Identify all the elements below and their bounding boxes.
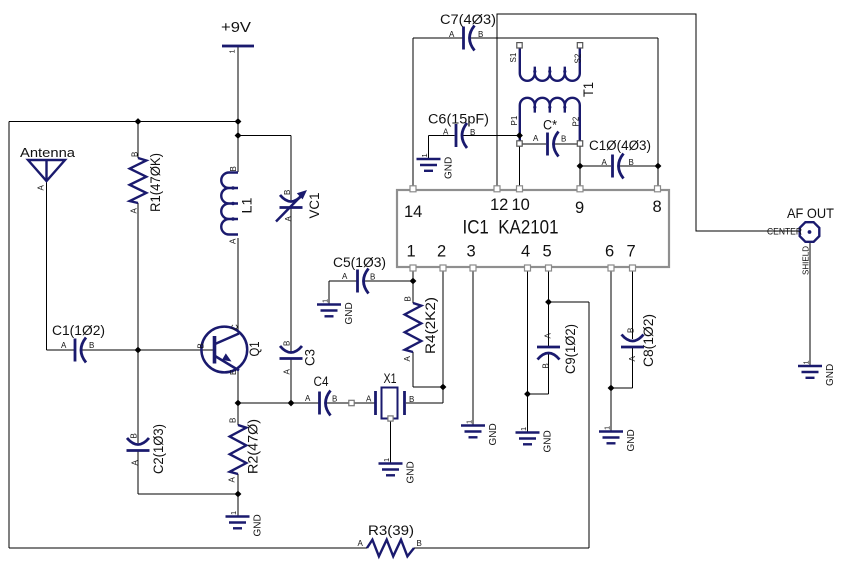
svg-text:4: 4 [521, 243, 530, 261]
svg-text:B: B [130, 433, 139, 438]
wire top-left rail [9, 121, 238, 123]
svg-text:SHIELD: SHIELD [801, 246, 811, 275]
wire X1 shield drop [390, 421, 392, 464]
svg-text:A: A [229, 238, 238, 244]
svg-text:X1: X1 [384, 371, 397, 386]
svg-text:C1Ø(4Ø3): C1Ø(4Ø3) [589, 138, 651, 153]
wire C-star to P1 P2 [520, 143, 547, 145]
svg-text:+9V: +9V [221, 20, 251, 36]
svg-text:AF OUT: AF OUT [787, 205, 834, 221]
svg-text:GND: GND [488, 423, 499, 445]
svg-text:CENTER: CENTER [767, 227, 802, 237]
svg-text:12: 12 [490, 196, 508, 214]
svg-text:1: 1 [407, 243, 416, 261]
capacitor C3 [280, 346, 303, 359]
pin 7 IC1 [630, 265, 636, 271]
svg-text:B: B [478, 30, 483, 39]
svg-text:2: 2 [437, 243, 446, 261]
wire pin2 drop [442, 271, 444, 403]
svg-text:S2: S2 [574, 53, 583, 63]
wire pin9 up T1 P2 [579, 113, 581, 188]
svg-text:C8(1Ø2): C8(1Ø2) [641, 314, 656, 367]
wire C5 B to pin1 node [363, 280, 414, 282]
svg-text:VC1: VC1 [307, 193, 322, 219]
junction dot 1 [135, 118, 142, 125]
svg-text:10: 10 [512, 196, 530, 214]
junction dot 10 [516, 132, 523, 139]
svg-text:R2(47Ø): R2(47Ø) [246, 419, 261, 474]
svg-text:C7(4Ø3): C7(4Ø3) [440, 12, 496, 27]
antenna ANT [20, 145, 76, 191]
node X1 shield terminal [388, 416, 393, 421]
variable capacitor VC1 [280, 195, 303, 208]
wire C6 A to GND [429, 135, 455, 137]
svg-text:R4(2K2): R4(2K2) [423, 297, 438, 354]
capacitor C7 [464, 26, 475, 51]
wire pin4 to GND [527, 271, 529, 433]
pin 12 IC1 [494, 186, 500, 192]
svg-text:Q1: Q1 [247, 342, 262, 357]
svg-text:A: A [443, 128, 449, 137]
svg-text:A: A [342, 272, 348, 281]
pin 9 IC1 [577, 186, 583, 192]
wire C1 B to Q1 base [81, 349, 214, 351]
crystal X1 [366, 371, 414, 419]
wire C5 A to GND [329, 280, 357, 282]
svg-text:A: A [305, 394, 311, 403]
svg-text:7: 7 [627, 243, 636, 261]
svg-text:1: 1 [519, 427, 528, 431]
svg-text:GND: GND [344, 302, 355, 324]
node T1 P2 terminal [577, 141, 582, 146]
ground X1 [379, 458, 417, 484]
pin 6 IC1 [608, 265, 614, 271]
wire pin6 to GND [610, 271, 612, 432]
wire R1 bottom to C2 [137, 203, 139, 443]
svg-text:A: A [358, 539, 364, 548]
svg-text:A: A [284, 216, 293, 222]
svg-text:C6(15pF): C6(15pF) [428, 112, 489, 127]
pin 2 IC1 [440, 265, 446, 271]
wire pin1 to R4 [412, 271, 414, 303]
transformer T1 [509, 48, 596, 142]
capacitor C6 [456, 123, 467, 148]
svg-text:B: B [404, 296, 413, 301]
ground pin4 [516, 427, 554, 453]
wire C4 B to net square [326, 402, 349, 404]
capacitor C5 [358, 269, 369, 294]
svg-text:B: B [417, 539, 422, 548]
svg-text:B: B [629, 158, 634, 167]
svg-text:B: B [89, 341, 94, 350]
ground R2 [226, 511, 264, 537]
svg-text:1: 1 [802, 360, 811, 364]
power +9V supply [221, 20, 254, 54]
connector AF OUT [767, 205, 834, 275]
pin 14 IC1 [410, 186, 416, 192]
svg-text:C*: C* [543, 118, 558, 133]
wire net square to X1 [354, 402, 375, 404]
wire pin14 to C7 [412, 38, 414, 187]
svg-text:8: 8 [653, 198, 662, 216]
svg-text:GND: GND [626, 429, 637, 451]
svg-text:R3(39): R3(39) [368, 523, 414, 538]
wire C2 bottom to GND rail [137, 451, 139, 495]
svg-text:IC1 KA2101: IC1 KA2101 [463, 218, 559, 239]
svg-text:S1: S1 [509, 52, 518, 62]
svg-text:1: 1 [321, 299, 330, 303]
capacitor C2 [127, 438, 150, 451]
svg-text:B: B [197, 343, 206, 348]
junction dot 5 [235, 400, 242, 407]
svg-text:T1: T1 [581, 82, 596, 97]
svg-text:P2: P2 [572, 116, 581, 126]
capacitor C9 [537, 347, 560, 360]
svg-text:A: A [544, 333, 553, 339]
svg-text:GND: GND [825, 364, 836, 386]
svg-text:C: C [231, 324, 240, 330]
node net-bridge [349, 400, 354, 405]
capacitor C8 [621, 335, 644, 348]
svg-text:C1(1Ø2): C1(1Ø2) [52, 323, 105, 338]
svg-text:L1: L1 [240, 198, 255, 214]
svg-text:A: A [61, 341, 67, 350]
svg-text:A: A [366, 395, 372, 404]
junction dot 8 [410, 278, 417, 285]
node T1 S2 terminal [577, 43, 582, 48]
wire left rail [8, 122, 10, 549]
svg-text:C9(1Ø2): C9(1Ø2) [563, 324, 578, 374]
svg-text:B: B [370, 273, 375, 282]
ground C6 [417, 153, 455, 179]
svg-text:GND: GND [406, 461, 417, 483]
svg-text:GND: GND [253, 514, 264, 536]
svg-text:1: 1 [603, 426, 612, 430]
resistor R4 [403, 296, 438, 361]
svg-text:B: B [283, 190, 292, 195]
wire pin5 to C9 [548, 271, 550, 347]
svg-text:B: B [409, 395, 414, 404]
pin 4 IC1 [525, 265, 531, 271]
svg-text:A: A [628, 356, 637, 362]
junction dot 4 [135, 347, 142, 354]
wire antenna drop [46, 181, 48, 350]
svg-text:3: 3 [467, 243, 476, 261]
wire C6 B to P1 node [461, 135, 520, 137]
wire R4 bottom jog [412, 352, 414, 387]
svg-text:A: A [130, 208, 139, 214]
junction dot 12 [655, 163, 662, 170]
wire pin12 to AF OUT [497, 14, 799, 231]
wire VC1 branch jog [238, 135, 291, 137]
svg-text:1: 1 [420, 153, 429, 157]
ground pin3 [461, 420, 499, 446]
wire pin3 to GND [472, 271, 474, 426]
wire C10 between pin9 pin8 [580, 165, 611, 167]
node T1 P1 terminal [517, 141, 522, 146]
op-amp IC1 KA2101 box [397, 190, 669, 267]
svg-text:A: A [449, 30, 455, 39]
svg-text:B: B [229, 418, 238, 423]
svg-text:B: B [627, 328, 636, 333]
capacitor C4 [320, 391, 331, 416]
svg-text:B: B [332, 395, 337, 404]
svg-text:9: 9 [575, 199, 584, 217]
ground pin6 [599, 426, 637, 452]
capacitor C* [548, 132, 559, 157]
svg-text:C3: C3 [303, 349, 318, 366]
resistor R2 [228, 418, 261, 483]
wire VC1 to C3 [290, 208, 292, 353]
ground C5 [317, 299, 355, 325]
wire bottom rail right [414, 547, 589, 549]
svg-text:R1(47ØK): R1(47ØK) [148, 153, 163, 212]
wire C7 B to pin8 [469, 37, 659, 39]
pin 8 IC1 [655, 186, 661, 192]
svg-text:A: A [37, 185, 46, 191]
wire C8 A down-left [632, 347, 634, 388]
ground AF OUT shield [798, 360, 836, 386]
svg-text:1: 1 [382, 458, 391, 462]
node T1 S1 terminal [517, 43, 522, 48]
junction dot 15 [608, 385, 615, 392]
transistor Q1 [197, 324, 263, 375]
junction dot 6 [288, 400, 295, 407]
svg-text:A: A [283, 369, 292, 375]
svg-text:C2(1Ø3): C2(1Ø3) [151, 424, 166, 474]
pin 3 IC1 [470, 265, 476, 271]
svg-text:5: 5 [543, 243, 552, 261]
wire Q1 emitter down [237, 369, 239, 425]
svg-text:1: 1 [228, 49, 237, 53]
junction dot 13 [545, 299, 552, 306]
resistor R1 [130, 152, 164, 214]
svg-text:GND: GND [543, 430, 554, 452]
pin 5 IC1 [546, 265, 552, 271]
wire bottom rail left [9, 547, 367, 549]
junction dot 14 [524, 391, 531, 398]
wire pin5 jog right [549, 301, 590, 303]
wire X1 B to pin2 line [406, 402, 443, 404]
svg-text:A: A [533, 134, 539, 143]
svg-text:A: A [403, 356, 412, 362]
svg-text:6: 6 [605, 243, 614, 261]
junction dot 11 [577, 163, 584, 170]
svg-text:B: B [561, 135, 566, 144]
svg-text:1: 1 [229, 511, 238, 515]
svg-text:E: E [229, 370, 238, 375]
capacitor C1 [75, 338, 86, 363]
pin 1 IC1 [410, 265, 416, 271]
junction dot 9 [440, 384, 447, 391]
svg-text:A: A [602, 158, 608, 167]
junction dot 7 [235, 491, 242, 498]
svg-text:B: B [131, 152, 140, 157]
resistor R3 [358, 523, 422, 556]
svg-text:B: B [470, 128, 475, 137]
svg-text:B: B [542, 363, 551, 368]
wire R1 top stub [137, 122, 139, 159]
svg-text:B: B [283, 341, 292, 346]
svg-text:P1: P1 [510, 115, 519, 125]
wire C3 to emitter node [290, 359, 292, 404]
svg-text:GND: GND [444, 157, 455, 179]
svg-text:B: B [229, 166, 238, 171]
wire emitter node to C4 [238, 402, 319, 404]
capacitor C10 [613, 154, 624, 179]
wire C9 B down-left [548, 354, 550, 395]
wire pin10 up T1 P1 [519, 113, 521, 188]
svg-text:14: 14 [404, 203, 422, 221]
svg-text:C5(1Ø3): C5(1Ø3) [333, 255, 386, 270]
wire pin7 to C8 [632, 271, 634, 339]
wire L1 to Q1 collector [237, 238, 239, 334]
pin 10 IC1 [517, 186, 523, 192]
junction dot 2 [235, 118, 242, 125]
junction dot 3 [235, 132, 242, 139]
svg-text:A: A [228, 477, 237, 483]
svg-text:A: A [131, 460, 140, 466]
svg-text:Antenna: Antenna [20, 145, 76, 160]
wire AF OUT shield drop [809, 243, 811, 367]
wire +9V rail drop [237, 47, 239, 172]
inductor L1 [221, 166, 254, 244]
svg-text:1: 1 [465, 420, 474, 424]
svg-text:C4: C4 [314, 374, 329, 389]
